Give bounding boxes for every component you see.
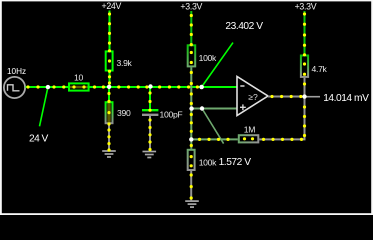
wire: +24V vertical dots (108, 12, 111, 15)
wire node A down to 390 (108, 87, 110, 101)
node cap (148, 84, 152, 88)
wire: +3.3V left vertical dots (190, 14, 193, 17)
svg-text:1M: 1M (244, 125, 255, 135)
leader for 23.402 V annotation (202, 43, 233, 87)
wire 390 to ground (108, 124, 110, 151)
svg-text:100k: 100k (199, 53, 217, 63)
ground G2 (143, 152, 157, 158)
wire: feedback horizontal dots (198, 138, 201, 141)
node junction dots (46, 84, 307, 141)
wire 3.9k to node A (109, 72, 111, 88)
svg-text:+3.3V: +3.3V (295, 2, 317, 12)
svg-text:23.402 V: 23.402 V (225, 21, 263, 32)
resistor R6 1M (239, 125, 258, 143)
svg-text:1.572 V: 1.572 V (219, 157, 252, 168)
svg-text:4.7k: 4.7k (312, 64, 328, 74)
wire +3.3V left vertical (190, 11, 192, 44)
svg-text:10Hz: 10Hz (7, 67, 26, 76)
ground G1 (102, 151, 116, 157)
wire 100k bottom to ground (190, 171, 192, 200)
op-amp U1 comparator (237, 77, 268, 116)
wire +3.3V right vertical (304, 11, 306, 55)
node minus probe (199, 85, 204, 90)
node src/R1 (46, 85, 50, 89)
resistor R3 390 (106, 101, 131, 124)
wire: 4.7k branch dots (303, 12, 306, 15)
leader for 24 V annotation (40, 87, 48, 126)
svg-text:100k: 100k (199, 158, 217, 168)
resistor R1 10 (69, 73, 89, 91)
wire: main horizontal dots (26, 85, 29, 88)
wire feedback right + up to output (259, 97, 304, 140)
svg-text:14.014 mV: 14.014 mV (323, 93, 369, 104)
wire 4.7k to output node (304, 78, 306, 97)
node B left (189, 106, 193, 110)
svg-text:24 V: 24 V (29, 133, 49, 144)
source V1 square wave 10Hz (4, 67, 26, 98)
wire: output dots (270, 95, 273, 98)
node output (302, 94, 306, 98)
svg-text:390: 390 (117, 108, 131, 118)
svg-text:10: 10 (74, 73, 83, 83)
ground G3 (185, 201, 199, 207)
wire op-amp output (268, 96, 305, 98)
node B right (200, 106, 204, 110)
wire main node 23.4V horizontal (26, 86, 238, 88)
wire 100k to node B2 (crosses main wire, no connection) (190, 67, 192, 139)
current dots (26, 12, 306, 199)
wire: 390 branch dots (107, 92, 110, 95)
node feedback (189, 137, 193, 141)
resistor R4 100k top (188, 45, 217, 66)
wire +24V vertical (109, 11, 111, 51)
wire: cap branch dots (148, 91, 151, 94)
svg-text:+3.3V: +3.3V (180, 2, 202, 12)
svg-text:3.9k: 3.9k (117, 58, 133, 68)
leader for 14.014 mV annotation (306, 96, 320, 98)
resistor R5 100k bottom (188, 150, 217, 170)
wire node B down to cap (149, 87, 151, 110)
wire feedback node down to bottom 100k (190, 139, 192, 148)
capacitor C1 100pF (142, 109, 182, 119)
wire op-amp plus input (191, 108, 237, 110)
svg-text:≥?: ≥? (248, 92, 258, 102)
wire feedback horizontal left part (191, 138, 238, 140)
resistor R2 3.9k (106, 51, 133, 70)
resistor R7 4.7k (301, 56, 328, 77)
leader for 1.572 V annotation (202, 109, 224, 144)
node A (107, 85, 111, 89)
wire cap to ground (149, 115, 151, 152)
svg-text:+24V: +24V (102, 1, 122, 11)
svg-text:100pF: 100pF (160, 109, 183, 119)
